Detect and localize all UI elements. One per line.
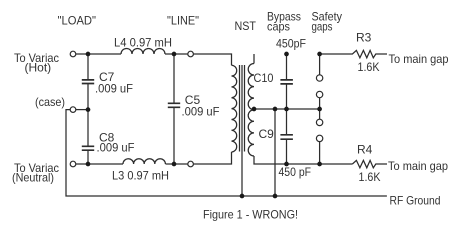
svg-text:To main gap: To main gap <box>388 159 448 173</box>
svg-text:(Neutral): (Neutral) <box>12 171 54 185</box>
svg-text:1.6K: 1.6K <box>359 170 381 184</box>
svg-text:L3 0.97 mH: L3 0.97 mH <box>112 169 169 183</box>
svg-text:1.6K: 1.6K <box>358 60 380 74</box>
svg-text:.009 uF: .009 uF <box>97 141 135 155</box>
svg-text:450pF: 450pF <box>276 37 306 51</box>
svg-text:R4: R4 <box>357 143 373 157</box>
svg-text:450 pF: 450 pF <box>279 165 312 179</box>
svg-text:Figure 1 - WRONG!: Figure 1 - WRONG! <box>203 208 298 222</box>
svg-text:(Hot): (Hot) <box>25 61 52 75</box>
svg-text:L4 0.97 mH: L4 0.97 mH <box>114 36 172 50</box>
svg-text:"LOAD": "LOAD" <box>58 14 97 28</box>
svg-text:caps: caps <box>267 20 290 34</box>
svg-text:C9: C9 <box>259 127 275 141</box>
svg-text:(case): (case) <box>35 95 65 109</box>
svg-text:C10: C10 <box>254 71 274 85</box>
svg-text:"LINE": "LINE" <box>167 14 199 28</box>
svg-text:.009 uF: .009 uF <box>95 82 133 96</box>
svg-text:.009 uF: .009 uF <box>182 105 220 119</box>
svg-text:RF Ground: RF Ground <box>390 194 441 208</box>
svg-text:NST: NST <box>235 19 257 33</box>
svg-text:To main gap: To main gap <box>389 52 449 66</box>
svg-text:gaps: gaps <box>312 20 333 34</box>
svg-text:R3: R3 <box>356 31 372 45</box>
